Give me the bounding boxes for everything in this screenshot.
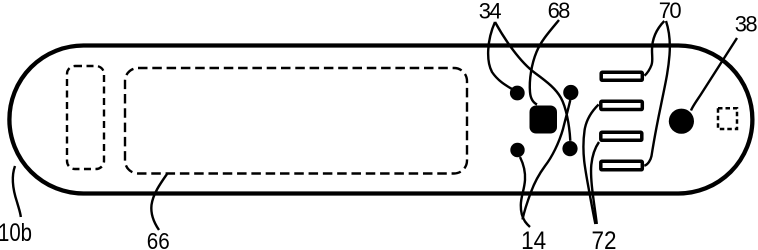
- svg-text:34: 34: [479, 0, 502, 23]
- device body outline (capsule) 10b: [9, 46, 752, 194]
- bar 1 (70): [601, 72, 642, 80]
- leader 70 to bar 4: [644, 21, 670, 166]
- filled square 68: [530, 106, 558, 134]
- svg-text:38: 38: [735, 12, 758, 37]
- leader 66: [151, 174, 167, 230]
- leader 70 to bar 1: [645, 21, 665, 76]
- leader 10b: [13, 166, 21, 217]
- leader 38 to filled circle: [691, 38, 737, 111]
- svg-text:70: 70: [659, 0, 682, 23]
- svg-text:10b: 10b: [0, 218, 32, 247]
- leader 72 from bar 3: [591, 142, 599, 224]
- svg-text:14: 14: [521, 227, 546, 250]
- leader 72 from bar 2: [583, 105, 598, 225]
- leader 34 to bottom-right dot: [495, 22, 570, 141]
- dashed square (right): [718, 108, 737, 129]
- bar 2 (72): [601, 101, 643, 109]
- bar 4 (70): [601, 161, 643, 170]
- svg-text:68: 68: [548, 0, 571, 23]
- leader 68 to square: [530, 20, 559, 105]
- dashed region 66 (large rect): [125, 68, 467, 174]
- filled circle 38: [669, 109, 694, 134]
- svg-text:66: 66: [147, 228, 170, 250]
- bar 3 (72): [601, 132, 642, 140]
- leader 14 to top-right dot: [523, 100, 571, 220]
- dot top-right (14): [563, 85, 578, 100]
- dot bottom-right (34): [562, 141, 577, 156]
- dot top-left (34): [510, 86, 525, 101]
- svg-text:72: 72: [592, 227, 617, 250]
- dot bottom-left (14): [510, 143, 524, 157]
- leader 14 to bottom-left dot: [520, 157, 530, 227]
- leader 34 to top-left dot: [488, 22, 512, 89]
- dashed compartment (left small rect): [67, 66, 104, 169]
